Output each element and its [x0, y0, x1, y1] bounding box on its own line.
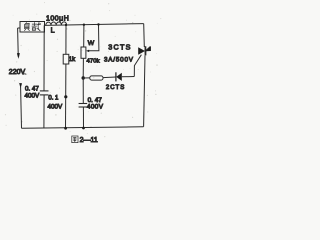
- junction dots top rail: [65, 24, 67, 26]
- svg-text:2—11: 2—11: [80, 137, 98, 144]
- svg-text:1k: 1k: [69, 57, 76, 63]
- svg-text:0. 47: 0. 47: [25, 86, 39, 93]
- node on 1k line: [64, 95, 67, 98]
- inductor L 100uH: [46, 22, 67, 25]
- svg-text:100μH: 100μH: [46, 15, 69, 22]
- svg-text:400V: 400V: [87, 104, 104, 111]
- wire bottom rail: [22, 127, 144, 128]
- svg-text:3A/500V: 3A/500V: [104, 56, 134, 63]
- caption 图 2-11: [72, 136, 78, 143]
- svg-text:0. 1: 0. 1: [48, 96, 59, 102]
- resistor 1k: [65, 25, 67, 54]
- svg-text:400V: 400V: [48, 104, 64, 111]
- node pot bottom: [82, 76, 85, 79]
- diode 2CTS: [115, 72, 117, 81]
- wire left rail upper: [17, 28, 20, 54]
- 负 glyph: [24, 23, 29, 31]
- wire left stub from rail to load box: [18, 27, 20, 29]
- svg-text:2CTS: 2CTS: [106, 85, 125, 91]
- wire left rail lower: [20, 87, 23, 128]
- wire top: [45, 24, 144, 26]
- 220V source arrow down: [17, 53, 19, 57]
- junction dots bottom rail: [64, 127, 67, 130]
- potentiometer W 470k: [83, 25, 85, 47]
- load box 负载: [20, 22, 45, 33]
- 载 glyph: [32, 22, 41, 31]
- wire gate to thyristor: [134, 55, 141, 77]
- svg-text:L: L: [51, 26, 55, 35]
- wiper wire from top rail: [88, 25, 99, 51]
- svg-text:220V: 220V: [9, 69, 26, 76]
- gate resistor: [83, 77, 89, 79]
- svg-text:400V: 400V: [25, 93, 41, 100]
- capacitor C2 0.47/400V: [82, 78, 84, 103]
- svg-text:470k: 470k: [87, 58, 100, 64]
- svg-text:3CTS: 3CTS: [108, 43, 132, 52]
- 220V source arrow up: [19, 83, 22, 89]
- thyristor 3CTS: [143, 24, 146, 47]
- svg-text:W: W: [88, 40, 95, 47]
- capacitor C1 0.47/400V: [43, 25, 45, 90]
